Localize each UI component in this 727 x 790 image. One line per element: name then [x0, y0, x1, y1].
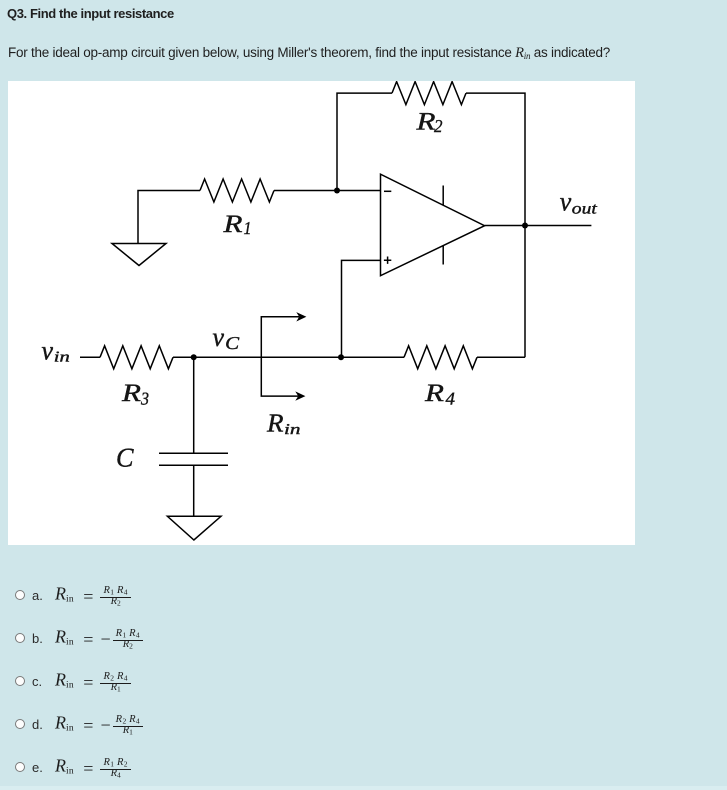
label vout [560, 187, 598, 218]
svg-text:3: 3 [140, 388, 149, 408]
label R1 [222, 211, 251, 238]
option b [15, 625, 143, 655]
node: plus-input junction [338, 354, 344, 360]
wire: vin lead [80, 356, 100, 358]
label R4 [424, 380, 455, 408]
Rin arrow top [296, 312, 306, 321]
svg-text:2: 2 [434, 116, 443, 136]
resistor R1 [200, 179, 274, 202]
label C [116, 442, 134, 472]
wire: ground lead to R1 [138, 191, 200, 244]
resistor R2 [392, 82, 466, 105]
wire: R4 to output vertical [477, 356, 525, 358]
resistor R3 [100, 346, 173, 369]
op-amp U1 [381, 174, 485, 276]
svg-text:out: out [572, 201, 598, 218]
svg-text:C: C [116, 442, 134, 472]
svg-text:v: v [42, 335, 54, 365]
svg-text:R: R [415, 108, 435, 135]
svg-text:R: R [121, 380, 141, 407]
op-amp minus sign [384, 190, 391, 192]
wire: top feedback right horizontal and vertical down [466, 93, 525, 357]
svg-text:in: in [284, 422, 301, 438]
svg-text:in: in [54, 349, 70, 365]
option a [15, 582, 131, 612]
node: output junction [522, 223, 528, 229]
svg-text:R: R [266, 409, 284, 438]
label R2 [415, 108, 442, 136]
node: inverting input junction [334, 188, 340, 194]
label vin [42, 335, 70, 365]
Rin indicator bracket [261, 317, 299, 396]
label R3 [121, 380, 149, 408]
wire: capacitor to ground [193, 465, 195, 516]
label vC [213, 322, 241, 353]
ground symbol G1 [112, 244, 166, 266]
capacitor C [159, 453, 228, 465]
op-amp power pin bottom [442, 246, 444, 265]
option d [15, 711, 143, 741]
label Rin [266, 409, 301, 438]
node: vC junction [191, 354, 197, 360]
wire: op-amp output [485, 225, 592, 227]
svg-text:C: C [225, 333, 240, 353]
op-amp plus sign [384, 257, 391, 264]
wire: plus input [342, 260, 381, 357]
ground symbol G2 [167, 516, 221, 540]
wire: R1 to op-amp inverting input [274, 190, 381, 192]
svg-text:R: R [222, 211, 242, 238]
circuit panel [8, 81, 635, 545]
wire: R3 to R4 across [173, 356, 404, 358]
wire: vC node down to capacitor [193, 357, 195, 453]
option c [15, 668, 131, 698]
svg-text:v: v [213, 322, 225, 352]
option e [15, 754, 131, 784]
svg-text:1: 1 [244, 218, 252, 238]
svg-text:4: 4 [446, 388, 456, 408]
resistor R4 [404, 346, 477, 369]
svg-text:R: R [424, 380, 444, 407]
svg-text:v: v [560, 187, 572, 217]
Rin arrow bottom [295, 391, 305, 400]
op-amp power pin top [442, 186, 444, 206]
wire: top feedback left vertical [337, 93, 392, 190]
